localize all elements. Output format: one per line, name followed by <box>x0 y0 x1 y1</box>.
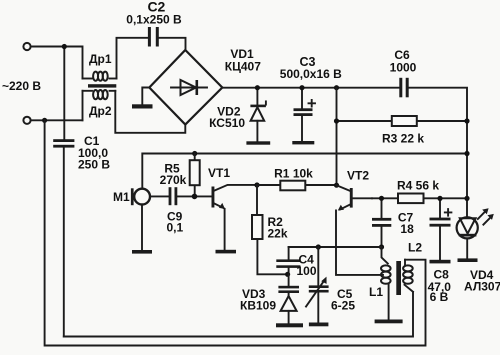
svg-text:0,1: 0,1 <box>167 221 184 235</box>
wire bridge left to ground <box>142 88 149 105</box>
wire middle rail <box>142 154 467 188</box>
transistor VT1 <box>212 185 258 250</box>
label R5 <box>160 162 187 188</box>
wire bottom mains to Dr2 <box>31 119 83 121</box>
wire x336 vertical <box>336 88 338 186</box>
label VD1 <box>225 47 261 74</box>
label L2 <box>408 241 422 255</box>
wire C2 to bridge top <box>159 38 186 50</box>
svg-text:L2: L2 <box>408 241 422 255</box>
svg-text:L1: L1 <box>369 285 383 299</box>
svg-text:КС510: КС510 <box>209 116 245 130</box>
label VD2 <box>209 105 245 131</box>
ground (VD2) <box>246 141 270 144</box>
svg-text:АЛ307: АЛ307 <box>464 280 500 294</box>
ground (bridge) <box>132 104 153 108</box>
wire junction to C1 <box>63 47 65 140</box>
wire Dr2 right to bridge bottom <box>115 91 185 133</box>
svg-text:500,0x16 В: 500,0x16 В <box>280 67 342 81</box>
node rail right <box>464 151 469 156</box>
transformer core L1/L2 <box>396 261 401 295</box>
variable capacitor C5 <box>306 247 329 323</box>
label C9 <box>167 210 184 235</box>
svg-text:R3 22 k: R3 22 k <box>382 132 424 146</box>
ground (C8) <box>430 260 451 264</box>
svg-text:22k: 22k <box>268 227 288 241</box>
label ~220 В <box>2 79 41 93</box>
resistor R3 <box>337 116 468 126</box>
label C1 <box>78 134 110 172</box>
node VT1 collector <box>254 182 259 187</box>
node bottom mains junction <box>42 118 47 123</box>
svg-text:6-25: 6-25 <box>331 299 355 313</box>
node C7 bottom <box>379 244 384 249</box>
label L1 <box>369 285 383 299</box>
node top mains junction <box>62 44 67 49</box>
microphone M1 <box>131 188 169 250</box>
inductor Dr1 <box>83 72 117 81</box>
svg-text:0,1x250 В: 0,1x250 В <box>126 13 182 27</box>
inductor L1 <box>381 247 391 320</box>
svg-text:M1: M1 <box>113 190 130 204</box>
label C2 <box>126 0 182 27</box>
terminal top ~220V <box>23 43 30 50</box>
capacitor C9 <box>169 187 212 205</box>
wire Dr1 right to C2 line <box>117 38 149 79</box>
svg-text:100: 100 <box>297 264 317 278</box>
svg-text:КВ109: КВ109 <box>240 299 276 313</box>
ground (C5) <box>309 323 329 327</box>
svg-text:R1 10k: R1 10k <box>274 167 313 181</box>
label M1 <box>113 190 130 204</box>
ground (VT1) <box>216 250 237 254</box>
wire outer loop (bottom terminal to L2 top) <box>45 120 426 345</box>
capacitor C7 <box>372 198 391 247</box>
capacitor C6 <box>399 78 408 98</box>
zener diode VD2 <box>250 88 266 142</box>
node R4 right <box>464 196 469 201</box>
label R3 <box>382 132 424 146</box>
capacitor C8 <box>430 198 452 259</box>
ground (C3) <box>292 141 314 144</box>
label C3 <box>280 55 342 81</box>
ground (M1) <box>132 250 152 254</box>
svg-text:270k: 270k <box>160 173 187 187</box>
svg-text:Др1: Др1 <box>89 52 112 66</box>
svg-text:250 В: 250 В <box>78 158 110 172</box>
label VT2 <box>347 169 369 183</box>
node C9/R5/VT1 <box>192 194 198 200</box>
svg-text:КЦ407: КЦ407 <box>225 60 261 74</box>
wire top rail (bridge to right) <box>222 88 467 216</box>
label VD3 <box>240 287 276 313</box>
svg-text:18: 18 <box>400 222 414 236</box>
transformer core <box>88 84 116 87</box>
transistor VT2 <box>336 185 383 275</box>
resistor R5 <box>190 154 200 197</box>
ground (VD3) <box>276 323 303 327</box>
label C5 <box>331 287 355 313</box>
varicap VD3 <box>278 274 299 323</box>
svg-text:R4 56 k: R4 56 k <box>397 179 439 193</box>
inductor Dr2 <box>83 90 116 120</box>
node C3 top <box>299 85 304 90</box>
label Dr1 <box>89 52 112 66</box>
label C4 <box>297 253 317 279</box>
node C5 top <box>316 244 321 249</box>
label VT1 <box>208 166 230 180</box>
capacitor C4 <box>276 247 300 274</box>
resistor R2 <box>252 185 287 274</box>
svg-text:VT1: VT1 <box>208 166 230 180</box>
wire tank top <box>289 246 382 248</box>
node R3 left <box>334 118 339 123</box>
label C7 <box>398 210 414 236</box>
capacitor C1 <box>53 139 74 336</box>
label R1 <box>274 167 313 181</box>
node top rail x336 <box>334 85 339 90</box>
svg-text:VT2: VT2 <box>347 169 369 183</box>
label Dr2 <box>89 104 112 118</box>
svg-text:Др2: Др2 <box>89 104 112 118</box>
label R2 <box>268 215 288 241</box>
inductor L2 <box>403 260 413 292</box>
label C6 <box>390 48 417 75</box>
LED VD4 <box>457 208 494 258</box>
node VD2 top <box>255 85 260 90</box>
capacitor C3 <box>294 88 316 141</box>
node C8 top <box>437 196 442 201</box>
label VD4 <box>464 268 500 294</box>
node C4/VD3/R2 <box>285 272 290 277</box>
bridge rectifier VD1 <box>149 50 222 125</box>
svg-text:1000: 1000 <box>390 61 417 75</box>
svg-text:6 В: 6 В <box>430 290 449 304</box>
wire inner loop (C1 bottom to L2 bottom) <box>64 292 413 337</box>
node C7 top <box>379 196 384 201</box>
ground (L1) <box>375 320 403 324</box>
ground (VD4) <box>458 258 478 262</box>
terminal bottom ~220V <box>23 117 30 124</box>
node VT2 collector <box>334 183 339 188</box>
svg-text:~220 В: ~220 В <box>2 79 41 93</box>
label R4 <box>397 179 439 193</box>
resistor R1 <box>257 181 337 191</box>
node rail R5 <box>192 151 197 156</box>
node R3 right <box>464 118 469 123</box>
capacitor C2 <box>148 27 159 47</box>
label C8 <box>428 267 452 304</box>
wire top mains to Dr1 <box>31 47 83 79</box>
resistor R4 <box>372 194 467 204</box>
